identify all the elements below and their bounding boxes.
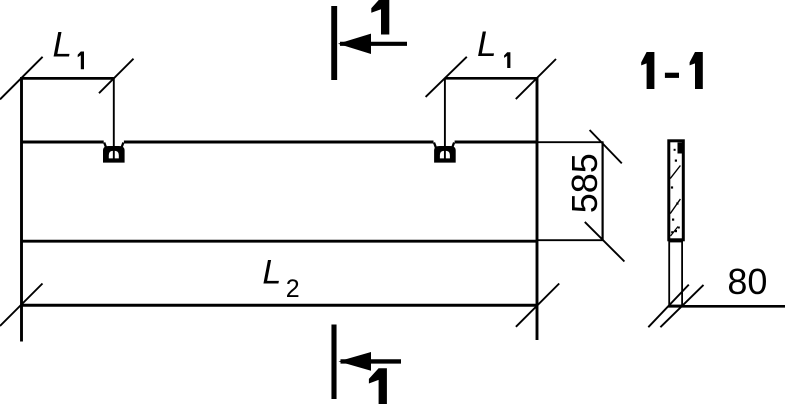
label L1 right : subscript 1 <box>504 52 510 68</box>
section cut line top <box>331 6 337 80</box>
label L1 left : subscript 1 <box>78 52 84 70</box>
section arrow bottom shaft <box>341 359 402 363</box>
section hatch line 2 <box>670 199 680 214</box>
dimension line L1 right <box>445 77 537 80</box>
svg-text:80: 80 <box>727 261 767 302</box>
extension line through loop 2 <box>444 78 446 159</box>
panel bottom edge / L2 dimension line <box>22 304 538 307</box>
section speckle 6 <box>671 231 673 233</box>
svg-text:L: L <box>53 26 72 65</box>
section view title 1-1 : hyphen <box>665 73 679 78</box>
section speckle 3 <box>676 202 678 204</box>
section loop anchor blob <box>678 143 685 154</box>
svg-text:585: 585 <box>564 153 605 213</box>
dimension line L1 left <box>22 77 114 80</box>
section arrow top shaft <box>340 42 407 46</box>
tick L1-right at right end <box>516 59 556 99</box>
section upper rect (concrete part) <box>669 141 684 240</box>
middle line thin extension to 585 dim <box>537 239 604 241</box>
section view title 1-1 : second digit 1 <box>690 52 703 89</box>
section speckle 1 <box>675 160 677 162</box>
top edge thin extension to 585 dim <box>537 141 604 143</box>
tick L1-left at left end <box>0 57 43 100</box>
panel right edge (extended above to dim and below bottom) <box>536 78 539 341</box>
section cut line bottom <box>331 325 336 400</box>
svg-text:L: L <box>477 25 496 64</box>
tick L2 at left end <box>0 284 43 327</box>
section arrow top head <box>338 34 371 54</box>
svg-text:L: L <box>262 253 281 291</box>
lifting loop 1 body <box>103 146 125 163</box>
panel top edge segment left <box>22 141 104 144</box>
section label 1 bottom <box>369 368 387 404</box>
dimension line 585 (vertical) <box>601 142 603 241</box>
tick L1-left at right end <box>99 59 134 93</box>
panel top edge segment middle <box>124 141 434 144</box>
section speckle 5 <box>675 230 677 232</box>
section baseline / 80 dimension line <box>668 305 785 308</box>
tick 585 top <box>590 130 622 163</box>
lifting loop 2 body <box>434 146 456 163</box>
section speckle 2 <box>671 186 673 188</box>
panel left edge (extended above to dim and below bottom) <box>20 77 23 342</box>
section speckle 7 <box>674 149 676 151</box>
panel top edge segment right <box>455 141 537 144</box>
tick 80 left <box>648 285 689 328</box>
tick 80 right <box>660 285 703 327</box>
section speckle 4 <box>672 219 674 221</box>
section hatch line 1 <box>670 166 680 179</box>
lifting loop 2 hole <box>440 151 450 159</box>
panel middle line <box>22 240 538 243</box>
section label 1 top <box>371 0 389 35</box>
tick 585 bottom <box>585 222 625 262</box>
notch 2 right side <box>452 143 455 150</box>
notch 1 left side <box>104 143 107 150</box>
section arrow bottom head <box>339 352 372 371</box>
section hatch line 3 <box>671 227 679 237</box>
lifting loop 1 hole <box>109 151 119 159</box>
svg-text:2: 2 <box>286 275 300 303</box>
section speckle 8 <box>678 227 680 229</box>
extension line through loop 1 <box>113 78 115 159</box>
tick L1-right at left end <box>426 57 467 97</box>
section lower rect (buried part) <box>669 242 682 306</box>
notch 2 left side <box>434 143 437 150</box>
tick L2 at right end <box>516 284 559 327</box>
section view title 1-1 : first digit 1 <box>641 52 654 89</box>
notch 1 right side <box>121 143 124 150</box>
